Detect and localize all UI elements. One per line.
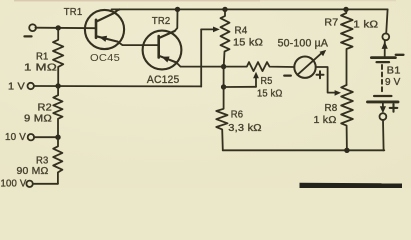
paper background bbox=[0, 0, 411, 188]
svg-text:1 kΩ: 1 kΩ bbox=[314, 115, 337, 126]
svg-text:R3: R3 bbox=[36, 156, 49, 167]
minus marker at input bbox=[25, 35, 32, 37]
dark bar bottom right (edge of next figure) bbox=[300, 183, 403, 188]
node: TR2 rail junction bbox=[175, 7, 180, 12]
battery minus sign bbox=[396, 54, 404, 56]
resistor R5 (pot, horizontal) bbox=[226, 62, 295, 71]
svg-text:90 MΩ: 90 MΩ bbox=[17, 166, 49, 177]
resistor R1 bbox=[53, 28, 63, 86]
svg-text:R1: R1 bbox=[36, 51, 49, 62]
input terminal (top left) bbox=[29, 24, 36, 31]
node: junction R1 top bbox=[56, 25, 61, 30]
meter plus sign bbox=[317, 71, 324, 78]
battery dashed middle wire bbox=[381, 65, 383, 93]
battery bottom lead bbox=[382, 120, 385, 151]
svg-text:AC125: AC125 bbox=[147, 74, 180, 86]
svg-text:R7: R7 bbox=[324, 18, 338, 29]
wire R5 wiper to junction bbox=[226, 86, 256, 88]
svg-text:9 V: 9 V bbox=[385, 76, 401, 88]
terminal 100V bbox=[26, 181, 32, 187]
wire meter to R8 wiper bbox=[316, 67, 335, 93]
terminal 1V bbox=[28, 83, 34, 89]
resistor R4 (pot) bbox=[221, 9, 230, 66]
top supply rail bbox=[112, 8, 388, 10]
resistor R2 bbox=[53, 86, 62, 137]
TR2 emitter arrow bbox=[162, 57, 170, 63]
svg-text:1 MΩ: 1 MΩ bbox=[24, 62, 57, 73]
wire 10V bbox=[34, 136, 58, 138]
wire 1V rail bbox=[34, 85, 201, 87]
battery bottom terminal circle bbox=[380, 113, 387, 120]
transistor TR2 bbox=[143, 31, 182, 70]
TR1 emitter arrow bbox=[99, 36, 107, 42]
node: R7 top rail junction bbox=[343, 7, 348, 12]
wire down between junctions bbox=[223, 67, 225, 87]
terminal 10V bbox=[28, 134, 34, 140]
svg-text:R4: R4 bbox=[235, 26, 248, 37]
battery plate short (top) bbox=[377, 61, 389, 63]
wire TR2 collector bbox=[176, 62, 223, 66]
node: junction R2/R3 bbox=[55, 135, 60, 140]
battery top arrow (up) bbox=[384, 40, 386, 56]
wire TR1 collector to TR2 base bbox=[118, 42, 159, 46]
battery B1 top lead bbox=[386, 9, 387, 33]
svg-text:R2: R2 bbox=[38, 103, 53, 114]
resistor R7 bbox=[341, 9, 353, 85]
resistor R8 (pot) bbox=[341, 85, 353, 150]
svg-text:1 kΩ: 1 kΩ bbox=[353, 20, 378, 31]
node: wiper/R6 junction bbox=[221, 84, 226, 89]
svg-text:15 kΩ: 15 kΩ bbox=[233, 38, 263, 49]
battery plate long (top) bbox=[371, 56, 395, 59]
node: R4 top rail junction bbox=[222, 7, 227, 12]
wire R4 wiper down to 1V rail (crosses collector wire) bbox=[200, 29, 202, 86]
transistor TR1 bbox=[85, 9, 124, 49]
R4 wiper arrow bbox=[201, 28, 213, 30]
resistor R6 bbox=[216, 87, 227, 150]
meter M (50-100 uA) bbox=[294, 56, 315, 77]
node: R5 left junction bbox=[221, 64, 226, 69]
battery top terminal circle bbox=[382, 33, 389, 40]
svg-text:100 V: 100 V bbox=[1, 179, 27, 189]
node: junction R1/R2 bbox=[55, 83, 60, 88]
svg-text:TR1: TR1 bbox=[64, 7, 83, 18]
wire TR2 emitter to rail bbox=[175, 9, 178, 31]
svg-text:3,3 kΩ: 3,3 kΩ bbox=[228, 123, 262, 134]
meter minus sign bbox=[284, 74, 291, 76]
scan edge tint top bbox=[14, 0, 260, 1]
meter needle bbox=[297, 53, 321, 75]
svg-text:OC45: OC45 bbox=[90, 53, 120, 64]
svg-text:R8: R8 bbox=[325, 103, 338, 114]
svg-text:50-100 µA: 50-100 µA bbox=[278, 37, 329, 49]
wire 100V bbox=[33, 183, 58, 185]
svg-text:15 kΩ: 15 kΩ bbox=[257, 88, 283, 99]
battery plate long (bottom) bbox=[368, 100, 399, 103]
svg-text:B1: B1 bbox=[387, 65, 401, 77]
svg-text:TR2: TR2 bbox=[152, 16, 171, 27]
svg-text:R5: R5 bbox=[261, 76, 273, 87]
svg-text:10 V: 10 V bbox=[5, 132, 26, 143]
battery plate short (bottom) bbox=[374, 95, 391, 97]
wire input to TR1 base bbox=[35, 27, 96, 30]
bottom rail bbox=[223, 149, 384, 151]
battery bottom arrow (down) bbox=[382, 103, 384, 106]
node: R8 bottom junction bbox=[344, 148, 349, 153]
svg-text:1 V: 1 V bbox=[8, 82, 25, 93]
resistor R3 bbox=[53, 137, 62, 184]
battery plus sign bbox=[390, 104, 398, 112]
svg-text:9 MΩ: 9 MΩ bbox=[24, 114, 52, 125]
svg-text:R6: R6 bbox=[231, 110, 244, 121]
R5 wiper arrow bbox=[255, 78, 257, 87]
